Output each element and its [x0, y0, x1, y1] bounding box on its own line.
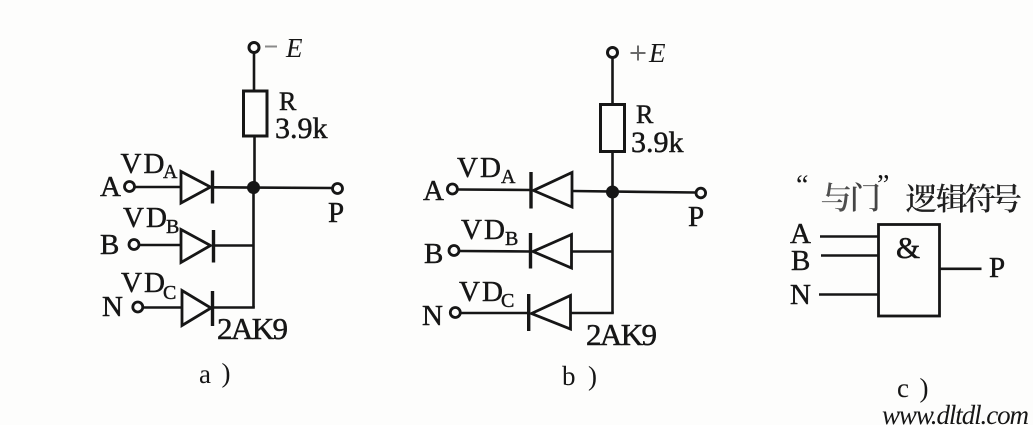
- svg-text:R: R: [636, 100, 654, 129]
- wire B to diode (fig b): [459, 250, 531, 253]
- wire diode B to bus (fig b): [572, 250, 613, 253]
- label +E: [631, 52, 646, 54]
- wire diode C to bus corner (fig a): [214, 306, 255, 309]
- svg-text:www.dltdl.com: www.dltdl.com: [882, 400, 1029, 425]
- wire B to diode (fig a): [140, 244, 182, 247]
- svg-text:E: E: [648, 38, 666, 68]
- svg-text:B: B: [166, 216, 179, 238]
- svg-text:a: a: [199, 359, 211, 389]
- title char 号: [992, 184, 1021, 213]
- title char 逻: [906, 184, 936, 212]
- title char 门: [853, 182, 879, 211]
- output terminal P (fig b): [696, 188, 706, 198]
- svg-text:c: c: [897, 373, 909, 403]
- title char 辑: [936, 184, 966, 213]
- svg-text:VD: VD: [459, 276, 505, 308]
- svg-text:B: B: [424, 238, 443, 270]
- bus wire vertical (fig a): [252, 188, 255, 308]
- input terminal B (fig a): [129, 240, 139, 250]
- wire supply to resistor (fig a): [253, 53, 256, 92]
- svg-text:A: A: [100, 171, 121, 203]
- wire supply to resistor (fig b): [611, 58, 614, 105]
- svg-text:VD: VD: [123, 202, 169, 234]
- input terminal N (fig a): [133, 302, 143, 312]
- svg-text:3.9k: 3.9k: [275, 112, 328, 145]
- svg-text:C: C: [501, 290, 514, 312]
- svg-text:A: A: [423, 175, 444, 207]
- wire resistor to node (fig b): [611, 152, 614, 193]
- svg-text:A: A: [501, 166, 516, 188]
- svg-text:E: E: [285, 33, 303, 63]
- resistor R 3.9k (fig b): [601, 105, 625, 152]
- svg-text:B: B: [505, 228, 518, 250]
- svg-text:): ): [222, 358, 231, 388]
- diode VDA (fig b): [529, 172, 532, 209]
- svg-text:A: A: [163, 161, 178, 183]
- svg-text:): ): [920, 373, 929, 403]
- svg-text:”: ”: [877, 170, 889, 201]
- wire N to diode (fig b): [460, 312, 529, 315]
- title char 与: [822, 182, 850, 211]
- svg-text:P: P: [989, 252, 1005, 284]
- input terminal B (fig b): [449, 246, 459, 256]
- svg-text:3.9k: 3.9k: [631, 126, 684, 159]
- svg-text:): ): [588, 361, 597, 391]
- svg-text:N: N: [102, 291, 123, 323]
- input wire B (fig c): [821, 254, 879, 257]
- wire A to diode (fig b): [458, 188, 531, 191]
- and-gate box U1: [879, 225, 940, 317]
- input terminal A (fig a): [125, 182, 135, 192]
- svg-text:&: &: [896, 230, 920, 265]
- svg-text:b: b: [562, 361, 576, 391]
- diode VDB (fig b): [529, 233, 532, 269]
- diode VDC (fig a): [182, 291, 211, 326]
- output terminal P (fig a): [333, 184, 343, 194]
- wire diode C to bus corner (fig b): [571, 312, 614, 315]
- label -E: [265, 46, 277, 48]
- wire A to diode (fig a): [135, 186, 181, 189]
- svg-text:VD: VD: [461, 214, 507, 246]
- svg-text:C: C: [163, 282, 176, 304]
- svg-text:“: “: [796, 170, 808, 201]
- diode VDC (fig b): [527, 294, 530, 331]
- wire resistor to node (fig a): [253, 136, 256, 188]
- svg-text:B: B: [100, 229, 119, 261]
- resistor R 3.9k (fig a): [244, 91, 268, 136]
- svg-text:VD: VD: [121, 267, 167, 299]
- output wire P (fig c): [940, 267, 982, 270]
- wire diode A to node to output (fig a): [214, 186, 332, 189]
- input wire N (fig c): [819, 293, 879, 296]
- node junction dot (fig a): [247, 181, 260, 194]
- terminal -E (fig a): [249, 43, 259, 53]
- wire N to diode (fig a): [143, 306, 182, 309]
- title char 符: [965, 183, 995, 212]
- wire diode B to bus (fig a): [215, 244, 254, 247]
- svg-text:VD: VD: [121, 148, 167, 180]
- wire diode A to node to output (fig b): [572, 191, 696, 193]
- bus wire vertical (fig b): [611, 192, 614, 313]
- node junction dot (fig b): [606, 186, 619, 199]
- svg-text:VD: VD: [457, 152, 503, 184]
- svg-text:P: P: [328, 197, 344, 229]
- svg-text:P: P: [688, 201, 704, 233]
- diode VDB (fig a): [181, 230, 211, 263]
- svg-text:2AK9: 2AK9: [586, 317, 657, 352]
- input wire A (fig c): [820, 235, 879, 238]
- svg-text:2AK9: 2AK9: [217, 311, 288, 346]
- svg-text:N: N: [790, 279, 811, 311]
- input terminal A (fig b): [447, 184, 457, 194]
- input terminal N (fig b): [450, 308, 460, 318]
- terminal +E (fig b): [608, 48, 618, 58]
- svg-text:N: N: [422, 300, 443, 332]
- diode VDA (fig a): [181, 172, 211, 204]
- svg-text:B: B: [791, 245, 810, 277]
